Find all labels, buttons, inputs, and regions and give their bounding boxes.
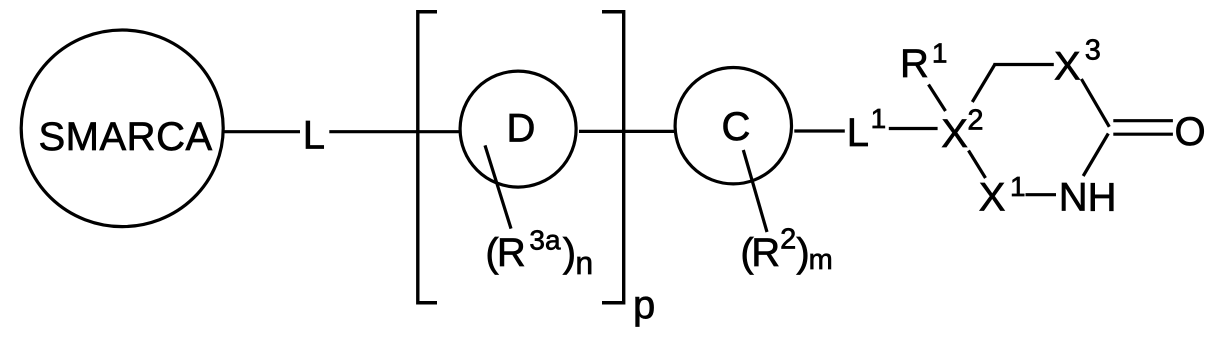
svg-text:D: D bbox=[507, 107, 536, 151]
wire bond C to (R2)m bbox=[743, 150, 767, 232]
SMARCA circle bbox=[21, 30, 223, 227]
C circle bbox=[675, 68, 791, 184]
wire bond CH2 apex to X3 bbox=[993, 63, 1053, 66]
wire bond X2 to ring CH2 apex bbox=[972, 65, 995, 103]
wire bond D to (R3a)n bbox=[485, 145, 511, 228]
svg-text:1: 1 bbox=[932, 38, 948, 69]
wire bond X2 to X1 bbox=[969, 151, 986, 179]
svg-text:1: 1 bbox=[871, 103, 887, 134]
svg-text:O: O bbox=[1175, 110, 1206, 154]
wire bond carbonyl C to NH bbox=[1083, 134, 1108, 177]
wire bond R1 to X2 bbox=[929, 85, 946, 112]
svg-text:L: L bbox=[847, 111, 869, 155]
wire bond L1 to X2 bbox=[889, 127, 938, 130]
svg-text:SMARCA: SMARCA bbox=[39, 115, 213, 159]
carbonyl double bond C=O upper line bbox=[1113, 119, 1173, 122]
svg-text:): ) bbox=[563, 231, 576, 275]
svg-text:3: 3 bbox=[1085, 35, 1101, 67]
wire bond L to D circle bbox=[329, 130, 460, 133]
left bracket bbox=[418, 12, 437, 303]
svg-text:L: L bbox=[303, 113, 325, 157]
carbonyl double bond C=O lower line bbox=[1113, 133, 1173, 136]
svg-text:1: 1 bbox=[1010, 171, 1026, 202]
svg-text:2: 2 bbox=[780, 223, 796, 255]
wire bond X1 to NH bbox=[1026, 193, 1057, 196]
svg-text:C: C bbox=[722, 105, 751, 149]
svg-text:m: m bbox=[809, 244, 833, 276]
svg-text:n: n bbox=[575, 245, 593, 281]
wire bond X3 to carbonyl C bbox=[1081, 79, 1109, 127]
D circle bbox=[460, 71, 576, 187]
svg-text:R: R bbox=[900, 42, 929, 86]
svg-text:p: p bbox=[633, 283, 655, 327]
svg-text:R: R bbox=[751, 231, 780, 275]
wire bond D to C circle bbox=[579, 130, 675, 133]
wire bond SMARCA to L bbox=[223, 130, 300, 133]
svg-text:X: X bbox=[979, 176, 1006, 220]
right bracket bbox=[602, 12, 624, 303]
svg-text:X: X bbox=[941, 112, 968, 156]
svg-text:2: 2 bbox=[967, 105, 983, 137]
svg-text:NH: NH bbox=[1059, 176, 1117, 220]
wire bond C to L1 bbox=[794, 129, 845, 132]
svg-text:3a: 3a bbox=[529, 224, 561, 255]
svg-text:X: X bbox=[1054, 45, 1081, 89]
svg-text:R: R bbox=[497, 231, 526, 275]
